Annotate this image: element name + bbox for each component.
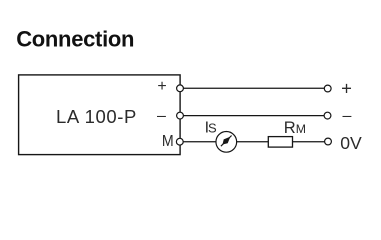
resistor RM bbox=[268, 137, 292, 148]
svg-text:–: – bbox=[343, 107, 352, 124]
svg-text:0V: 0V bbox=[340, 133, 362, 153]
svg-text:M: M bbox=[162, 133, 174, 150]
output terminal 0V bbox=[325, 138, 332, 145]
output terminal + bbox=[324, 85, 331, 92]
meter Is (current meter circle) bbox=[216, 132, 237, 153]
terminal + on box bbox=[177, 85, 184, 92]
svg-text:+: + bbox=[157, 78, 166, 95]
svg-text:IS: IS bbox=[205, 120, 217, 137]
wire M (from box terminal M through Is meter and RM to output 0V) bbox=[180, 141, 328, 143]
svg-text:+: + bbox=[341, 78, 352, 99]
terminal - on box bbox=[177, 112, 184, 119]
svg-text:LA 100-P: LA 100-P bbox=[56, 106, 137, 127]
wire + (from box terminal + to output +) bbox=[180, 87, 327, 89]
output terminal - bbox=[324, 112, 331, 119]
device box U1 LA 100-P bbox=[19, 75, 181, 155]
svg-text:–: – bbox=[157, 107, 166, 124]
meter needle bbox=[221, 136, 232, 147]
svg-text:Connection: Connection bbox=[16, 26, 134, 51]
terminal M on box bbox=[176, 138, 183, 145]
svg-text:RM: RM bbox=[284, 119, 306, 137]
wire - (from box terminal - to output -) bbox=[180, 115, 327, 117]
